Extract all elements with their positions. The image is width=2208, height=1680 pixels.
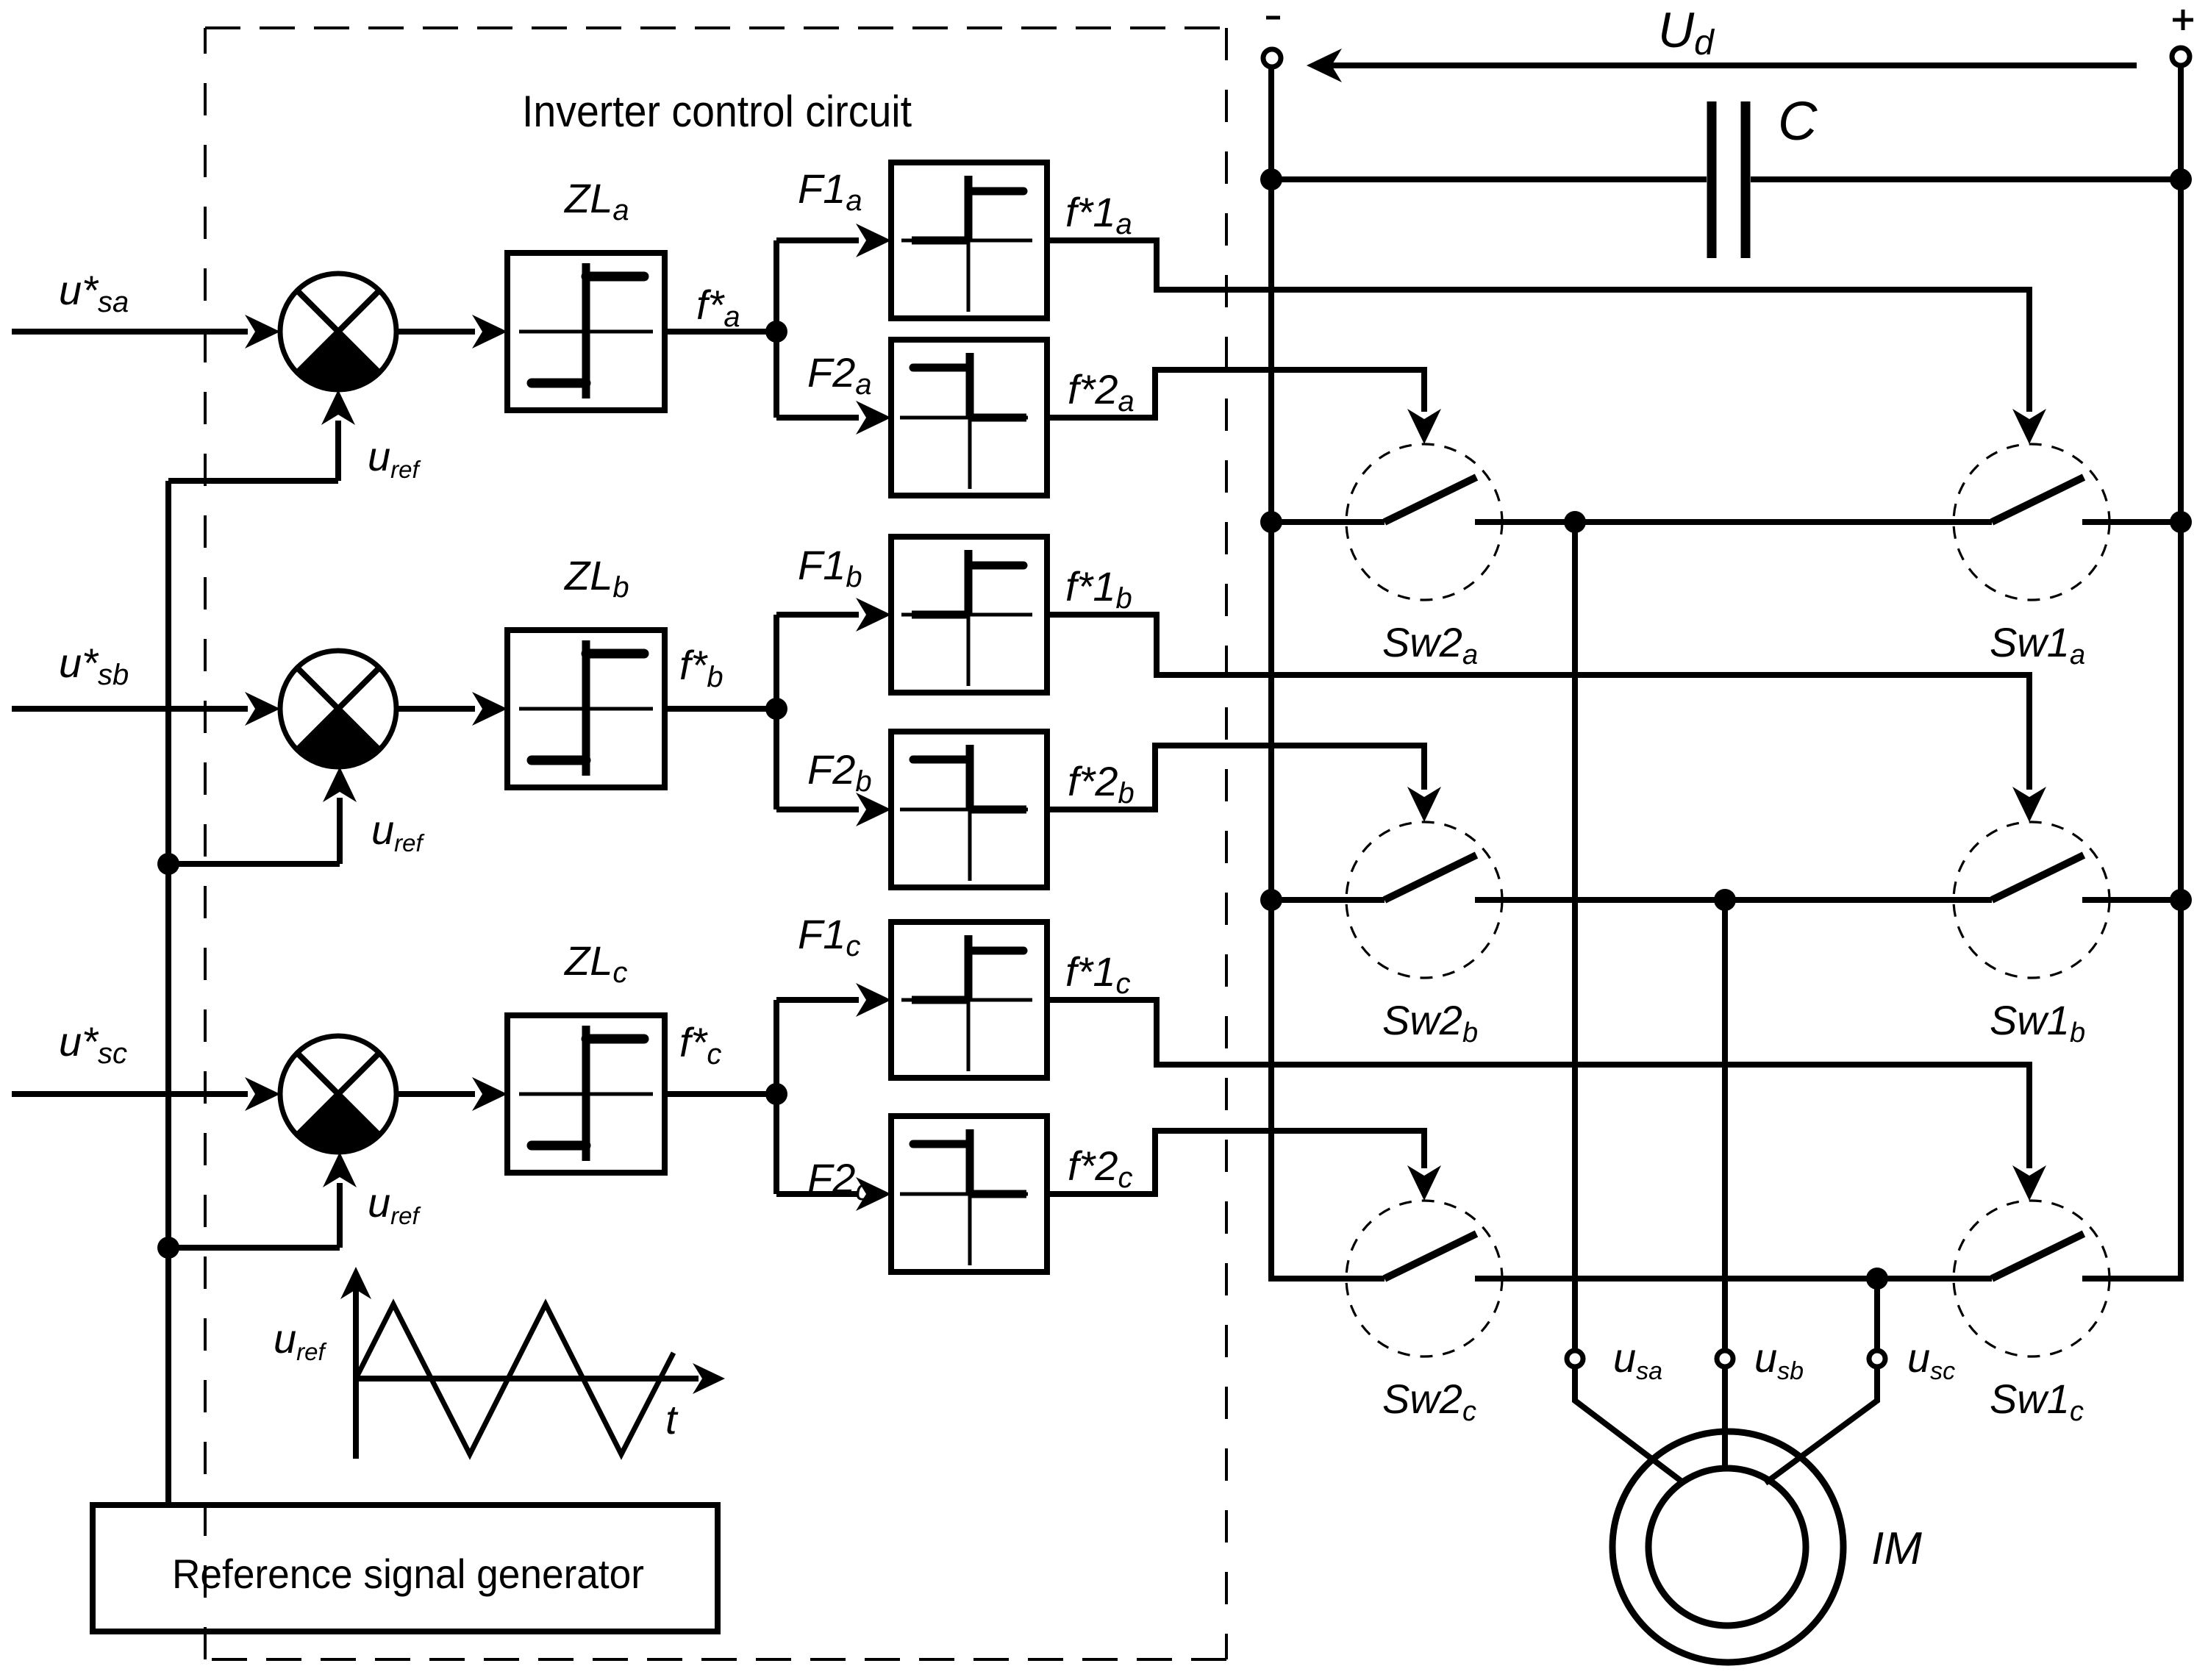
wire minus bus to Sw2c — [1268, 1276, 1385, 1282]
wire ZLa output f*a — [665, 329, 776, 335]
wire u_ref feed row c — [168, 1245, 340, 1251]
wire u_ref feed row a — [168, 478, 338, 484]
switch Sw2a — [1346, 444, 1502, 600]
node capacitor left bus — [1260, 168, 1282, 190]
relay block F2c — [891, 1116, 1047, 1272]
node plus bus row a — [2170, 511, 2192, 533]
wire f*2a to Sw2a — [1047, 370, 1424, 418]
wire fork a vertical — [773, 240, 779, 418]
wire summer c to ZLc — [396, 1091, 475, 1097]
svg-text:Sw2c: Sw2c — [1382, 1376, 1476, 1427]
waveform horizontal axis arrow — [693, 1363, 725, 1394]
arrow into F1a — [856, 224, 891, 257]
wire u_ref riser row a — [335, 421, 341, 481]
switch Sw2b — [1346, 822, 1502, 978]
switch Sw2c — [1346, 1201, 1502, 1356]
node minus bus row a — [1260, 511, 1282, 533]
wire fork to F1a — [776, 237, 859, 243]
arrow f*1c into Sw1c — [2012, 1165, 2046, 1201]
svg-text:IM: IM — [1871, 1523, 1922, 1574]
wire summer b to ZLb — [396, 706, 475, 712]
svg-text:t: t — [665, 1396, 679, 1443]
svg-text:Reference signal generator: Reference signal generator — [172, 1551, 644, 1597]
waveform vertical axis arrow — [340, 1267, 371, 1299]
arrow f*1b into Sw1b — [2012, 787, 2046, 822]
wire fork to F1c — [776, 997, 859, 1003]
arrow into F1b — [856, 598, 891, 632]
waveform vertical axis — [353, 1283, 359, 1459]
arrow into ZLa — [472, 315, 507, 348]
terminal minus — [1263, 49, 1281, 67]
arrow into summer b — [245, 692, 280, 726]
wire Sw2a to phase node — [1475, 519, 1575, 525]
F1a symbol — [901, 176, 1032, 312]
wire fork to F2a — [776, 415, 859, 421]
wire plus bus — [2178, 65, 2184, 1279]
relay block F1c — [891, 922, 1047, 1078]
node phase a — [1564, 511, 1586, 533]
arrow into ZLb — [472, 692, 507, 726]
node fork a — [765, 321, 787, 343]
wire f*1c to Sw1c — [1047, 1000, 2029, 1168]
relay block F1a — [891, 162, 1047, 318]
ZLb symbol — [519, 640, 653, 776]
wire Sw1a to plus bus — [2082, 519, 2181, 525]
terminal u_sb — [1717, 1351, 1733, 1367]
wire fork to F2b — [776, 807, 859, 812]
wire fork c vertical — [773, 1000, 779, 1194]
wire Sw2c to phase node — [1475, 1276, 1877, 1282]
capacitor C plates — [1712, 101, 1746, 258]
waveform horizontal axis — [356, 1376, 699, 1381]
wire Sw2b to phase node — [1475, 897, 1725, 903]
relay block ZLb — [507, 630, 665, 787]
arrow into F2a — [856, 401, 891, 435]
wire phase node to Sw1c — [1877, 1276, 1992, 1282]
arrow u_ref into summer a — [321, 390, 355, 425]
wire summer a to ZLa — [396, 329, 475, 335]
wire fork to F2c — [776, 1191, 859, 1197]
arrow f*2c into Sw2c — [1407, 1165, 1441, 1201]
arrow f*1a into Sw1a — [2012, 409, 2046, 444]
wire f*2c to Sw2c — [1047, 1131, 1424, 1194]
wire u_ref riser row b — [337, 798, 343, 864]
wire Sw1b to plus bus — [2082, 897, 2181, 903]
arrow f*2b into Sw2b — [1407, 787, 1441, 822]
summing junction Sb — [280, 651, 396, 767]
inverter control circuit dashed boundary — [205, 28, 1226, 1659]
wire fork b vertical — [773, 615, 779, 809]
arrow into F1c — [856, 983, 891, 1017]
motor IM outer — [1612, 1431, 1843, 1662]
wire u_sc to stator — [1765, 1367, 1877, 1483]
wire u_ref bus vertical — [165, 481, 171, 1505]
wire u_sa to stator — [1575, 1367, 1684, 1483]
F2c symbol — [900, 1129, 1028, 1265]
arrow into summer a — [245, 315, 280, 348]
Ud arrow line — [1312, 62, 2137, 68]
arrow u_ref into summer c — [323, 1152, 357, 1187]
ZLa symbol — [519, 263, 653, 398]
wire minus bus — [1268, 66, 1274, 1279]
wire minus bus to Sw2b — [1271, 897, 1385, 903]
switch Sw1a — [1954, 444, 2109, 600]
wire phase node to Sw1a — [1575, 519, 1992, 525]
arrow into F2b — [856, 793, 891, 826]
wire phase a drop — [1572, 522, 1578, 1351]
F2a symbol — [900, 353, 1028, 489]
wire input u*sc — [12, 1091, 248, 1097]
F1c symbol — [901, 935, 1032, 1071]
arrow into summer c — [245, 1077, 280, 1111]
wire fork to F1b — [776, 612, 859, 618]
motor IM inner — [1648, 1468, 1806, 1626]
relay block F1b — [891, 537, 1047, 693]
svg-text:Inverter control circuit: Inverter control circuit — [522, 87, 912, 136]
wire input u*sa — [12, 329, 248, 335]
wire input u*sb — [12, 706, 248, 712]
arrow into F2c — [856, 1177, 891, 1211]
waveform triangle u_ref — [356, 1304, 674, 1454]
wire ZLc output f*c — [665, 1091, 776, 1097]
wire phase c drop — [1874, 1279, 1880, 1351]
relay block ZLa — [507, 253, 665, 410]
wire phase node to Sw1b — [1725, 897, 1992, 903]
node capacitor right bus — [2170, 168, 2192, 190]
wire minus bus to Sw2a — [1271, 519, 1385, 525]
relay block F2a — [891, 340, 1047, 496]
F2b symbol — [900, 745, 1028, 881]
wire capacitor right — [1751, 176, 2181, 182]
label plus sign — [2173, 10, 2193, 30]
summing junction Sc — [280, 1036, 396, 1152]
wire capacitor left — [1271, 176, 1707, 182]
node u_ref tap c — [157, 1237, 179, 1259]
Ud arrowhead — [1307, 49, 1342, 82]
arrow into ZLc — [472, 1077, 507, 1111]
summing junction Sa — [280, 274, 396, 390]
arrow u_ref into summer b — [323, 767, 357, 802]
relay block F2b — [891, 732, 1047, 887]
node fork c — [765, 1083, 787, 1105]
wire f*2b to Sw2b — [1047, 746, 1424, 809]
wire Sw1c to plus bus — [2082, 1276, 2184, 1282]
svg-text:Sw1c: Sw1c — [1990, 1376, 2084, 1427]
switch Sw1b — [1954, 822, 2109, 978]
terminal plus — [2172, 48, 2190, 65]
svg-text:C: C — [1778, 90, 1818, 151]
node minus bus row b — [1260, 889, 1282, 911]
wire u_ref riser row c — [337, 1183, 343, 1248]
wire f*1b to Sw1b — [1047, 615, 2029, 790]
node fork b — [765, 698, 787, 720]
wire ZLb output f*b — [665, 706, 776, 712]
node phase b — [1714, 889, 1736, 911]
switch Sw1c — [1954, 1201, 2109, 1356]
arrow f*2a into Sw2a — [1407, 409, 1441, 444]
F1b symbol — [901, 550, 1032, 686]
wire f*1a to Sw1a — [1047, 240, 2029, 412]
terminal u_sa — [1567, 1351, 1583, 1367]
relay block ZLc — [507, 1015, 665, 1173]
wire u_sb to stator — [1722, 1367, 1728, 1470]
node phase c — [1866, 1268, 1888, 1290]
ZLc symbol — [519, 1026, 653, 1161]
label minus sign — [1266, 16, 1280, 20]
node u_ref tap b — [157, 853, 179, 875]
wire phase b drop — [1722, 900, 1728, 1351]
node plus bus row b — [2170, 889, 2192, 911]
block Reference signal generator — [93, 1505, 718, 1631]
terminal u_sc — [1869, 1351, 1885, 1367]
wire u_ref feed row b — [168, 861, 340, 867]
